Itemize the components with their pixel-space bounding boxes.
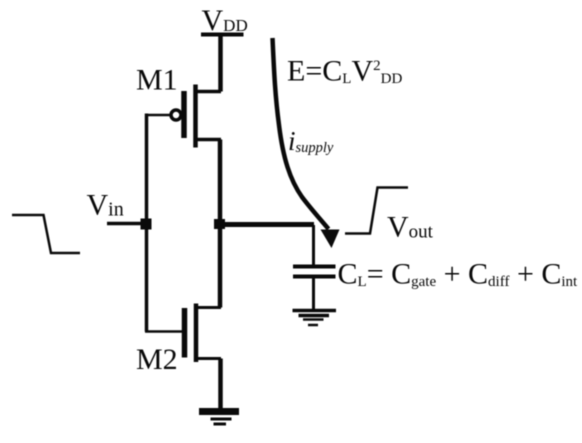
svg-text:CL= Cgate + Cdiff + Cint: CL= Cgate + Cdiff + Cint [338, 258, 579, 291]
svg-text:M1: M1 [136, 64, 178, 97]
svg-text:M2: M2 [136, 343, 178, 376]
